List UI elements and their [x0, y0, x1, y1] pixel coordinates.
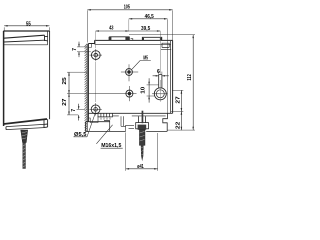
svg-text:10: 10 — [141, 87, 147, 94]
left foot step — [88, 116, 98, 122]
gland clamp rod (dark) — [142, 111, 144, 124]
svg-text:43: 43 — [109, 26, 113, 32]
top-right small box — [161, 43, 171, 49]
svg-text:22: 22 — [175, 122, 181, 130]
mounting hole bottom-left — [89, 103, 101, 115]
mounting hole top-left — [90, 49, 102, 61]
M16 thread profile comb — [98, 113, 113, 119]
base mid line left — [86, 121, 110, 123]
left view right edge — [49, 31, 51, 119]
left view bottom bar top — [6, 124, 44, 126]
dimension 22 right — [181, 111, 183, 130]
label M5 with leader — [132, 55, 151, 69]
left view cable gland (dark) — [21, 130, 28, 143]
svg-text:39,5: 39,5 — [141, 26, 150, 32]
dimension 10 keyhole — [147, 78, 159, 102]
M5 hole — [121, 64, 138, 81]
small step right of plunger — [131, 39, 133, 41]
left view left edge — [3, 31, 5, 126]
extension lines for 55 — [4, 27, 49, 30]
cable tip — [141, 145, 144, 161]
bracket ledge at top-left — [88, 44, 91, 48]
svg-text:7: 7 — [71, 109, 77, 112]
dimension 112 — [129, 35, 195, 130]
dimension 105 — [87, 9, 172, 43]
left view cable (hatched) — [23, 143, 26, 169]
dimension 46,5 — [129, 18, 168, 113]
top raised boss — [142, 37, 162, 40]
second hole — [89, 86, 137, 101]
svg-text:27: 27 — [175, 96, 181, 104]
gland nut dark fill — [138, 125, 147, 130]
svg-text:7: 7 — [72, 48, 78, 51]
keyhole slot — [152, 75, 168, 100]
base second line — [113, 115, 166, 117]
dimension 25 left — [67, 72, 87, 93]
plunger end caps dark — [109, 37, 112, 41]
left view lid wedge top — [4, 35, 45, 38]
dimension 27 left — [67, 94, 78, 115]
body right edge — [172, 40, 174, 113]
cable gland right view — [136, 116, 149, 129]
svg-text:55: 55 — [26, 22, 31, 28]
hatched mounting wall — [86, 44, 88, 132]
body inner right seam — [170, 41, 172, 113]
base band lines — [86, 113, 173, 131]
body left edge — [87, 44, 89, 122]
left view bottom bar ends — [6, 119, 48, 129]
dimension 39,5 — [129, 30, 161, 32]
left view lid wedge right end — [45, 35, 48, 41]
keyhole centerline — [159, 31, 161, 102]
dimension 7 bottom-left — [77, 104, 85, 121]
body top edge — [95, 39, 173, 41]
dimension 43 — [96, 30, 129, 32]
dimension o41 — [126, 133, 158, 171]
svg-text:27: 27 — [62, 98, 68, 106]
dimension 7 top-left — [77, 42, 91, 58]
left view top edge — [3, 30, 49, 32]
base left cap — [85, 122, 87, 132]
base top line — [88, 112, 172, 114]
left view inner right seam — [47, 31, 49, 45]
svg-text:105: 105 — [124, 5, 130, 11]
left view bottom slanted edge — [4, 119, 47, 124]
dimension 55 — [4, 25, 49, 31]
svg-text:ø41: ø41 — [137, 164, 143, 170]
base bottom line — [86, 130, 168, 132]
label O5,5 with leader — [74, 113, 96, 138]
left view bottom bar bottom — [6, 128, 44, 130]
svg-text:112: 112 — [187, 74, 193, 80]
body top-left step — [88, 40, 94, 43]
left view lid wedge bottom — [4, 40, 45, 42]
mounting holes centerline — [95, 31, 97, 102]
svg-text:25: 25 — [62, 77, 68, 85]
body outline right view — [88, 40, 172, 131]
plunger on top — [110, 37, 129, 41]
label M16x1,5 with leader — [96, 125, 122, 149]
dimension 27 right — [171, 90, 184, 111]
svg-text:6: 6 — [157, 69, 160, 75]
base right edge with notch — [163, 113, 168, 131]
cable entry pocket — [104, 121, 110, 132]
dimension 6 keyhole slot — [153, 72, 169, 77]
left view body seam under lid — [4, 44, 48, 46]
cable right view (dark) — [139, 129, 145, 145]
M5 centerline extension — [128, 19, 130, 31]
body top seam line — [95, 43, 171, 45]
svg-text:46,5: 46,5 — [145, 14, 154, 20]
